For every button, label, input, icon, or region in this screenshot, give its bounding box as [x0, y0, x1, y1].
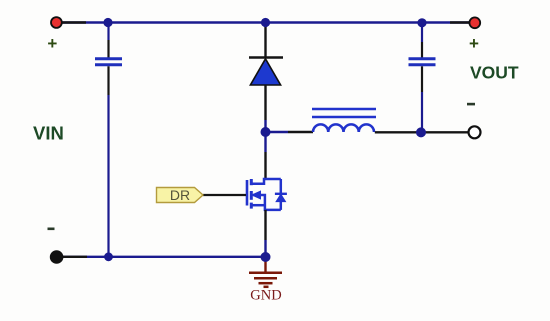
wire: switch node to inductor — [266, 131, 314, 133]
wire: bottom rail — [57, 256, 266, 258]
wire: gate lead from DR flag — [203, 194, 246, 196]
wire: input cap branch lower run to bottom rail — [107, 66, 109, 256]
label flag DR — [157, 187, 204, 203]
wire: MOSFET source to ground node — [264, 210, 266, 257]
svg-text:+: + — [469, 34, 479, 53]
diode D1 (freewheeling, cathode up) — [249, 58, 283, 86]
label - (VOUT negative) — [467, 103, 475, 106]
wire: black lead from VIN+ terminal — [60, 21, 86, 23]
node G (ground junction) — [261, 252, 271, 262]
svg-text:DR: DR — [170, 187, 190, 203]
wire: input cap branch upper stub — [107, 23, 109, 58]
transistor Q1 (NMOS with body diode) — [247, 179, 287, 210]
svg-text:VIN: VIN — [33, 123, 64, 144]
node D (switch node) — [261, 127, 271, 137]
label - (VIN negative) — [48, 228, 55, 231]
wire: diode anode to switch node — [264, 85, 266, 132]
capacitor C2 (output) — [409, 59, 436, 65]
wire: switch node down to MOSFET drain — [264, 132, 266, 179]
wire: black lead to VOUT+ terminal — [450, 21, 469, 23]
capacitor C1 (input) — [95, 59, 122, 65]
node A (top rail / input cap) — [103, 18, 112, 27]
svg-text:VOUT: VOUT — [470, 63, 519, 83]
node F (bottom rail / input cap) — [104, 252, 113, 261]
wire: output node to open terminal — [421, 131, 468, 133]
wire: inductor to output node — [375, 131, 421, 133]
terminal VIN+ (red) — [51, 17, 62, 28]
terminal VIN- (black) — [50, 250, 64, 264]
ground — [249, 259, 282, 304]
node E (output node / cap bottom) — [416, 127, 426, 137]
svg-text:GND: GND — [250, 288, 281, 304]
node B (top rail / diode cathode branch) — [261, 18, 270, 27]
terminal VOUT- (open) — [469, 126, 481, 138]
svg-text:+: + — [47, 34, 57, 53]
wire: diode branch upper stub — [264, 23, 266, 58]
terminal VOUT+ (red) — [469, 17, 480, 28]
wire: output cap branch upper stub — [421, 23, 423, 58]
wire: top rail VIN+ to VOUT+ — [56, 21, 475, 23]
wire: output cap branch lower stub — [421, 66, 423, 132]
inductor L1 — [312, 109, 376, 132]
node C (top rail / output cap) — [417, 18, 426, 27]
